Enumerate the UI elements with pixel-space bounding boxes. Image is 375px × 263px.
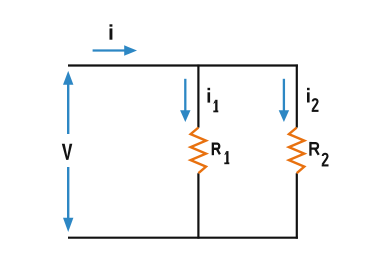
- label V: [62, 144, 73, 160]
- resistor R2: [289, 128, 304, 174]
- label i1: [208, 88, 219, 113]
- wire middle branch upper segment: [197, 64, 199, 127]
- resistor R1: [191, 128, 206, 174]
- label i2: [307, 88, 319, 111]
- label R2: [310, 142, 328, 166]
- label i (top current): [110, 24, 113, 39]
- current arrow i1 (pointing down): [180, 79, 190, 122]
- wire right branch upper segment: [296, 64, 298, 127]
- wire bottom rail (node B): [68, 237, 298, 239]
- current arrow i (top, pointing right): [93, 45, 137, 55]
- voltage arrow V (double-headed, left side): [63, 71, 73, 232]
- wire middle branch lower segment: [197, 173, 199, 239]
- current arrow i2 (pointing down): [279, 79, 289, 122]
- label R1: [213, 143, 229, 165]
- wire right branch lower segment: [296, 173, 298, 239]
- wire top rail (node A): [68, 64, 298, 66]
